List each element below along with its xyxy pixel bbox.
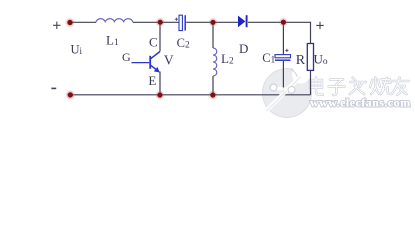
svg-text:C: C (149, 34, 158, 49)
svg-text:R: R (296, 53, 306, 68)
svg-text:G: G (122, 50, 131, 64)
svg-text:www.elecfans.com: www.elecfans.com (310, 96, 411, 110)
svg-text:D: D (239, 41, 248, 56)
svg-text:E: E (148, 73, 156, 88)
svg-text:V: V (164, 52, 174, 67)
